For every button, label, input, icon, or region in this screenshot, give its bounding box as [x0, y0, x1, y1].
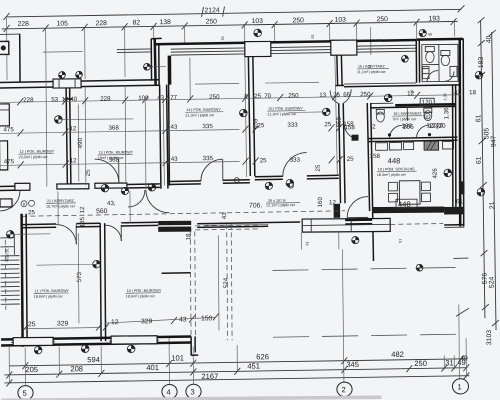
right dim ticks	[478, 17, 499, 326]
room19 south wall	[255, 175, 339, 179]
door arc room19S	[283, 153, 307, 177]
corridor dash-dot centre line	[22, 211, 345, 217]
axis 4 line	[168, 337, 170, 384]
dark pier corridor south x158-190	[158, 221, 191, 225]
left outer wall x23	[22, 214, 28, 347]
right dimension line outer	[492, 32, 496, 330]
social chairs	[388, 182, 430, 202]
inner dim row y127: 475 12 368 43 335 25 333 25 158 166 120 20	[0, 120, 444, 133]
room label 21 KORYTARZ left	[46, 199, 76, 209]
radiator marks rooms	[162, 272, 191, 275]
south wall window boxes	[13, 337, 53, 345]
right dimension line inner	[481, 20, 485, 318]
axis circle 5	[18, 386, 33, 400]
south wall end step x190	[191, 336, 198, 355]
corridor south wall west piece	[22, 224, 56, 228]
dashed shaft rectangle x189-232	[190, 224, 259, 341]
door leaf plate	[15, 183, 30, 190]
door arc room13S	[201, 159, 223, 181]
room13 south wall	[168, 180, 250, 185]
scan noise overlay	[0, 0, 1, 1]
wall vertical x163 west wing east wall	[160, 85, 168, 189]
social table	[399, 181, 420, 205]
room label 18 SANITARIAT	[392, 112, 430, 122]
wall vertical x339 room19 east / corridor west	[330, 55, 352, 203]
right outer wall vertical	[452, 38, 465, 226]
bottom extension lines to axes	[9, 338, 466, 384]
door arc room13L	[95, 159, 119, 183]
axis circle 4	[162, 384, 177, 399]
corridor west double door arcs	[146, 190, 169, 213]
wall vertical x370 corridor leg east / social west	[367, 103, 373, 261]
south outer wall left wing	[1, 336, 191, 345]
top band pier 2	[331, 40, 357, 55]
sanitariat door arc 1	[388, 125, 403, 138]
door arc corridor west	[0, 191, 20, 211]
corridor small 2line label	[266, 199, 300, 208]
faint ceiling lines rooms 13 19	[43, 50, 319, 86]
bathroom small partitions	[422, 67, 429, 79]
social door jamb dark	[334, 204, 341, 218]
inner dim row y313: 25 329 12 329 43 150	[23, 315, 216, 329]
bathroom inner box	[422, 44, 458, 81]
axis circle 1	[452, 379, 468, 394]
bathroom toilet 2	[441, 50, 450, 65]
south wall piece between social door and social room	[345, 218, 372, 221]
kitchen dark hatched cabinet	[424, 141, 439, 150]
axis circle 2	[337, 382, 352, 397]
bottom dimension row C: 2167	[4, 370, 469, 387]
social bottom wall y212	[372, 206, 464, 215]
top row2 tick marks	[4, 18, 457, 32]
top band pier 1	[245, 41, 271, 56]
vertical dim 120 boxed on sanit wall	[420, 98, 434, 106]
scan bottom edge shading	[2, 395, 382, 400]
sanitariat fixtures wc left	[376, 109, 384, 122]
left edge window box upper	[0, 104, 9, 126]
bottom dimension row B: 205 208 401 451 345 250 31 49	[4, 358, 469, 378]
terrace dash right small	[453, 257, 468, 259]
corridor south wall piece x76-100	[76, 223, 100, 227]
corridor north wall far west	[0, 186, 20, 190]
corridor south wall centre section	[197, 222, 300, 227]
small circled letters near corridor	[21, 201, 27, 207]
right diag tick lower	[456, 308, 469, 316]
room label 15 POK BIUROWY top	[267, 107, 305, 117]
corridor north wall x127-160	[127, 184, 160, 188]
vertical dim 12 185 stacked	[79, 206, 86, 227]
stairs dashed walk line	[4, 240, 7, 310]
wall stub vertical x68 room12/13 partition	[64, 87, 73, 184]
top band outer wall	[155, 40, 417, 44]
corridor top wall under bathroom y85	[344, 83, 459, 87]
long extension verticals through rooms	[46, 55, 338, 224]
axis 5 line	[24, 348, 26, 385]
corridor leg door arc	[344, 124, 358, 141]
bottom dimension row A: 594 101 626 482	[9, 349, 466, 369]
left edge wall stub above	[19, 34, 21, 82]
corridor north wall T-cap at x58-89	[57, 184, 89, 189]
top band window lines	[117, 45, 417, 55]
room label 11 POK BIUROWY	[34, 289, 70, 299]
window box south centre	[301, 218, 443, 250]
axis 3 line	[192, 346, 194, 383]
inner row tick slashes	[17, 92, 422, 332]
right wall corner piece bottom	[444, 181, 465, 227]
sanitariat bottom wall y139	[368, 137, 458, 142]
top dimension chain row2 228 105 228 82 138 250 103 250 103 250 193	[2, 15, 458, 29]
inner dim row y97: 228 53 12 40 228 100 43 77 250 8 25 70 250 13 25 66 250 12 43 18	[0, 89, 477, 104]
sanitariat mid partition	[406, 107, 408, 121]
wall vertical x157	[151, 38, 162, 84]
sanitariat door arc 2	[416, 125, 431, 138]
room label 13 POK BIUROWY lower	[98, 150, 134, 160]
sanitariat fixtures wc right	[424, 108, 432, 121]
room label 10 POK BIUROWY	[126, 289, 162, 299]
terrace dashed line upper	[273, 267, 464, 270]
social 448 boxed label	[396, 199, 417, 209]
left edge door symbol box top	[0, 41, 9, 54]
wall top-left horizontal west wing	[0, 80, 159, 88]
room label 12 POK BIUROWY	[19, 150, 55, 160]
door arc room11	[56, 224, 76, 244]
top extension lines	[7, 14, 455, 80]
bathroom door arcs	[427, 71, 438, 82]
top dimension chain 2124	[3, 5, 464, 20]
room label 14 POK BIUROWY top	[185, 108, 223, 118]
axis circle 3	[186, 384, 201, 399]
left edge box low	[0, 199, 12, 207]
top-right outer wall horizontal	[417, 38, 463, 41]
stairs bottom-left	[0, 234, 20, 305]
bathroom toilet 1	[425, 47, 434, 63]
corridor south wall piece x105-121 with door arc room10	[105, 225, 121, 241]
survey marker symbols	[5, 27, 486, 354]
inner dim row y159: 475 12 368 43 335 25 333 25	[0, 153, 381, 166]
left edge window box mid	[0, 141, 8, 170]
bathroom west partition	[416, 41, 419, 83]
door threshold plate x91-127	[95, 183, 127, 188]
kitchen cabinet row	[376, 141, 454, 150]
window box in west wing wall	[53, 79, 81, 88]
wall vertical x102 rooms 11|10	[100, 223, 105, 341]
room label 19 POM SOCJALNE	[377, 167, 417, 177]
wall vertical x171 room13 west	[168, 56, 171, 186]
social door arc	[347, 197, 368, 218]
room label 16 KORYTARZ	[357, 64, 389, 74]
corridor south wall piece x121-158	[121, 222, 158, 226]
terrace dashed line lower	[273, 334, 461, 337]
wall vertical x251 rooms 13|19	[248, 56, 254, 176]
axis 2 line	[342, 249, 344, 382]
sanitariat top wall y106	[371, 103, 455, 108]
bathroom top tiny marker	[419, 29, 432, 36]
bathroom sink	[450, 66, 457, 76]
axis 1 line	[458, 304, 461, 378]
